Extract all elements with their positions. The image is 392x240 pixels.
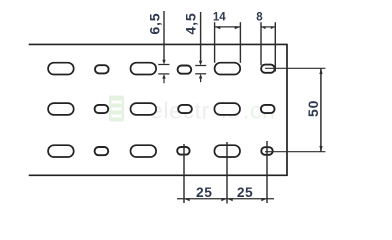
slot row2 col1 — [48, 103, 74, 115]
slot row1 col1 — [48, 63, 74, 75]
dimension 8 right extension line — [274, 22, 276, 71]
dimension 8 left extension line — [260, 22, 262, 65]
slot row2 col3 — [131, 103, 157, 115]
watermark logo square — [109, 96, 124, 122]
dimension 50 bottom arrow — [319, 146, 322, 152]
dimension 25 left extension line — [183, 144, 185, 203]
dimension 8 right arrow — [271, 26, 276, 29]
hole row3 col2 — [95, 147, 109, 155]
hole row1 col6 — [261, 65, 275, 73]
slot row3 col5 — [214, 145, 240, 157]
slot row3 col3 — [131, 145, 157, 157]
dimension 50 top extension line — [265, 67, 325, 69]
svg-text:4,5: 4,5 — [183, 12, 199, 34]
slot row3 col1 — [48, 145, 74, 157]
svg-text:8: 8 — [256, 12, 263, 24]
dimension 14 left extension line — [214, 22, 216, 63]
slot row1 col5 — [215, 63, 241, 75]
hole row1 col2 — [95, 65, 109, 73]
dimension 14 right extension line — [239, 22, 241, 63]
hole row2 col6 — [261, 105, 275, 113]
dimension 4,5 lower extension line with arrow — [199, 74, 202, 79]
dimension 8 dimension line — [261, 26, 275, 28]
slot row1 col3 — [131, 63, 157, 75]
svg-text:25: 25 — [237, 185, 253, 200]
strip bottom edge — [29, 174, 287, 176]
svg-text:6,5: 6,5 — [148, 13, 164, 35]
dimension 4,5 upper extension line with arrow — [200, 12, 202, 61]
dimension 25 middle extension line — [226, 142, 228, 204]
svg-text:25: 25 — [196, 185, 212, 200]
dimension 50 dimension line — [320, 68, 322, 151]
dimension 14 left arrow — [215, 26, 221, 29]
dimension 4,5 bottom tick — [195, 73, 206, 75]
dimension 6,5 top tick — [158, 64, 169, 66]
dimension 50 bottom extension line — [265, 151, 325, 153]
strip top edge — [29, 43, 287, 45]
dimension 50 top arrow — [319, 68, 322, 74]
hole row3 col4 — [177, 147, 189, 155]
hole row2 col2 — [95, 105, 109, 113]
dimension 6,5 lower extension line with arrow — [162, 74, 165, 79]
dimension 25 right extension line — [266, 141, 268, 203]
dimension 4,5 top tick — [195, 65, 206, 67]
hole row2 col4 — [178, 105, 192, 113]
dimension 6,5 bottom tick — [158, 73, 169, 75]
dimension 6,5 upper extension line with arrow — [163, 11, 165, 60]
svg-text:50: 50 — [305, 100, 321, 117]
dimension 25 dimension line — [177, 198, 274, 200]
dimension 25 arrow at left — [184, 198, 190, 201]
hole row3 col6 — [261, 147, 272, 155]
dimension 14 right arrow — [235, 26, 241, 29]
dimension 25 arrows at middle — [221, 198, 227, 201]
dimension 25 arrow at right — [261, 198, 267, 201]
slot row2 col5 — [214, 103, 240, 115]
dimension 8 left arrow — [261, 26, 266, 29]
dimension 14 dimension line — [215, 26, 241, 28]
strip right edge — [286, 44, 288, 176]
hole row1 col4 — [178, 66, 192, 74]
svg-text:14: 14 — [213, 12, 226, 24]
